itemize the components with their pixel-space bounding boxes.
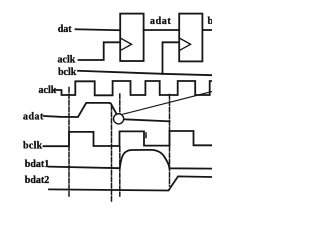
dashed timing line t2 bbox=[111, 106, 113, 202]
svg-text:bclk: bclk bbox=[58, 67, 77, 78]
flip-flop U1 bbox=[120, 14, 143, 61]
wire dat input bbox=[76, 28, 121, 31]
wire bclk to U2 clock bbox=[163, 42, 180, 74]
wire aclk to U1 clock bbox=[79, 42, 121, 60]
svg-text:bd: bd bbox=[208, 16, 213, 27]
svg-text:adat: adat bbox=[23, 112, 44, 123]
waveform adat low after edge bbox=[124, 119, 170, 121]
svg-text:bdat2: bdat2 bbox=[25, 175, 49, 186]
dashed timing line t5 bbox=[169, 95, 171, 187]
waveform bdat1 bbox=[49, 150, 213, 169]
clock triangle U1 bbox=[121, 39, 131, 51]
waveform aclk bbox=[54, 81, 212, 95]
waveform bclk bbox=[44, 131, 213, 146]
wire U2 output bbox=[203, 29, 212, 31]
svg-text:aclk: aclk bbox=[58, 55, 76, 66]
svg-text:dat: dat bbox=[58, 24, 73, 35]
waveform adat bbox=[44, 103, 117, 117]
flip-flop U2 bbox=[179, 14, 202, 62]
waveform bdat2 bbox=[49, 176, 212, 190]
node adat wire U1 to U2 bbox=[144, 29, 179, 31]
hazard circle bbox=[114, 114, 124, 124]
svg-text:bdat1: bdat1 bbox=[25, 159, 49, 170]
svg-text:bclk: bclk bbox=[23, 140, 43, 151]
dashed timing line t4 bbox=[145, 133, 147, 138]
wire bclk bbox=[78, 71, 212, 75]
clock triangle U2 bbox=[180, 39, 190, 51]
annotation callout line bbox=[123, 92, 212, 115]
dashed timing line t1 bbox=[68, 88, 70, 197]
svg-text:adat: adat bbox=[150, 16, 171, 27]
dashed timing line t3 bbox=[119, 94, 121, 196]
